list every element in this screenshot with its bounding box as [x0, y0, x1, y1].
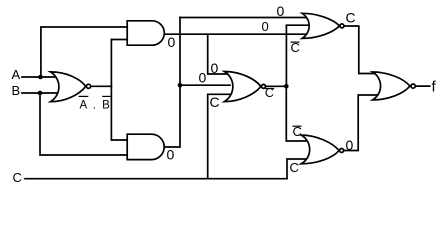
wire NOR2 output to node — [266, 85, 287, 87]
wire NOR5 output f — [415, 85, 430, 87]
wire top rail to NOR3 input 1 — [180, 17, 311, 19]
wire AND2 output up to top rail — [164, 18, 180, 148]
svg-text:0: 0 — [211, 60, 219, 76]
AND gate U3 (bottom) — [127, 134, 164, 159]
NOR gate U5 (top right, 3-input) — [302, 13, 339, 38]
wire AND1 input 2 — [111, 39, 127, 41]
svg-text:0: 0 — [168, 34, 176, 50]
wire AND2 input 1 — [111, 139, 127, 141]
wire C rail — [25, 178, 287, 180]
wire NOR2 input 1 from AND1 output — [208, 34, 230, 74]
svg-text:0: 0 — [346, 137, 354, 153]
svg-text:C: C — [346, 10, 356, 26]
svg-text:0: 0 — [199, 70, 207, 86]
wire NOR4 input 2 from C rail — [287, 159, 306, 179]
junction dot on B — [38, 91, 43, 96]
svg-text:0: 0 — [277, 3, 285, 19]
wire NOR2 input 2 from node — [180, 84, 230, 86]
svg-text:A . B: A . B — [80, 100, 112, 112]
svg-text:C: C — [290, 160, 299, 175]
junction node at AND2 output bus — [178, 83, 183, 88]
AND gate U2 (top) — [127, 21, 164, 45]
NOR gate U4 (middle, 3-input) — [224, 72, 261, 102]
wire B input — [22, 92, 60, 94]
svg-text:0: 0 — [167, 147, 175, 163]
wire NOR3 output to NOR5 input 1 — [344, 26, 378, 74]
svg-text:C: C — [210, 94, 220, 110]
svg-text:A: A — [12, 67, 21, 82]
wire node down to NOR4 input 1 — [286, 86, 306, 141]
wire node up to NOR3 input 2 — [286, 25, 311, 86]
wire vertical A.B bus — [110, 40, 112, 141]
NOR gate U1 (inputs A,B) — [50, 72, 85, 102]
wire NOR2 input 3 from C rail — [208, 94, 230, 178]
junction dot on A — [38, 75, 43, 80]
wire NOR4 output to NOR5 input 2 — [344, 95, 378, 151]
wire B branch down to AND2 input 2 — [40, 93, 127, 155]
NOR gate U6 (bottom right) — [301, 135, 339, 164]
svg-text:0: 0 — [262, 19, 269, 34]
wire AND1 output to NOR3 input 3 — [164, 33, 311, 35]
wire A branch up to AND1 input 1 — [41, 27, 127, 77]
svg-text:C: C — [13, 170, 22, 185]
wire NOR1 output to vertical bus — [91, 85, 112, 87]
junction node at NOR2 output — [284, 84, 289, 89]
wire A input — [22, 76, 60, 78]
svg-text:B: B — [12, 83, 21, 98]
NOR gate U7 (output) — [373, 72, 410, 100]
